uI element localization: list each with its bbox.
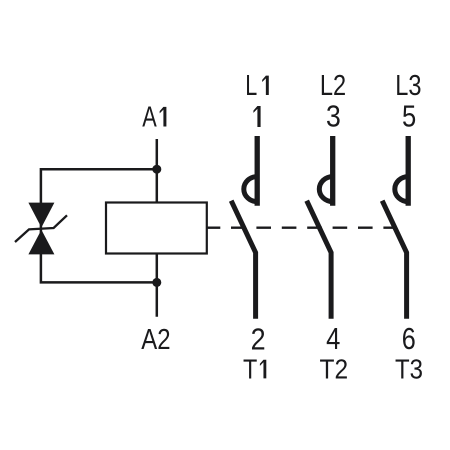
svg-text:4: 4 xyxy=(326,322,340,356)
svg-text:L: L xyxy=(245,70,257,102)
svg-text:6: 6 xyxy=(402,322,416,356)
pole 1 moving contact and lower terminal line xyxy=(231,201,255,319)
node junction bottom xyxy=(152,278,161,287)
terminal label T1 xyxy=(243,353,266,384)
wire mechanical linkage dashed xyxy=(231,226,393,228)
pole 2 moving contact and lower terminal line xyxy=(307,201,331,319)
svg-text:L3: L3 xyxy=(395,70,421,102)
wire suppressor branch loop xyxy=(41,169,157,282)
svg-text:A: A xyxy=(142,102,157,134)
svg-text:L2: L2 xyxy=(320,70,346,102)
pole 1 fixed contact line xyxy=(255,136,260,206)
pole 1 contact hook arc xyxy=(244,177,257,202)
suppressor top triangle xyxy=(28,203,54,228)
svg-text:T3: T3 xyxy=(395,354,423,385)
terminal label 1 xyxy=(253,106,260,127)
coil K1 xyxy=(106,203,207,254)
pole 2 contact hook arc xyxy=(319,177,332,202)
pole 2 fixed contact line xyxy=(330,136,335,206)
pole 3 fixed contact line xyxy=(406,136,411,206)
svg-text:5: 5 xyxy=(402,100,416,134)
wire coil linkage stub xyxy=(207,226,221,228)
svg-text:T: T xyxy=(243,353,257,384)
pole 3 contact hook arc xyxy=(395,177,408,202)
node junction top xyxy=(152,165,161,174)
pole 3 moving contact and lower terminal line xyxy=(382,201,406,319)
terminal label A1 xyxy=(142,102,166,134)
suppressor bidirectional zener bar xyxy=(15,215,67,242)
svg-text:A2: A2 xyxy=(141,324,170,356)
suppressor bottom triangle xyxy=(28,230,54,255)
terminal label L1 xyxy=(245,70,269,102)
svg-text:2: 2 xyxy=(251,322,266,356)
svg-text:3: 3 xyxy=(326,100,341,134)
wire coil vertical A1-A2 xyxy=(156,139,159,317)
svg-text:T2: T2 xyxy=(320,354,349,385)
